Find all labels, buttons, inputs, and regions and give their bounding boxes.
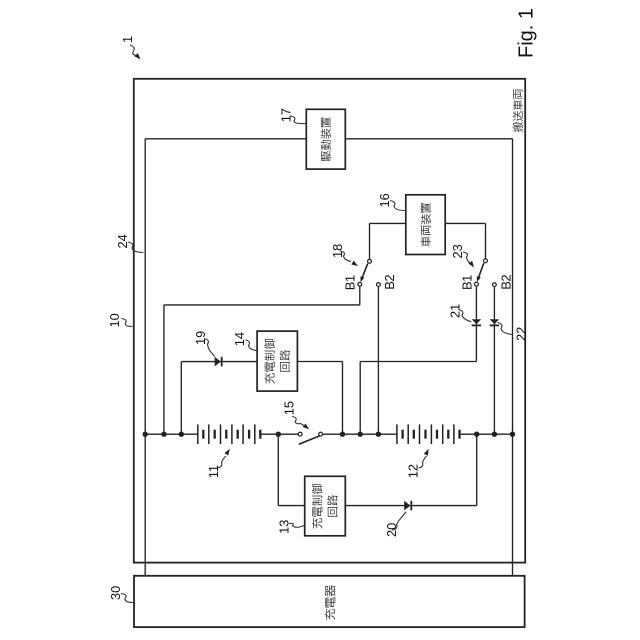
label 車両装置 (vehicle device) <box>421 203 431 247</box>
wire B1(23) down <box>475 287 477 362</box>
svg-text:24: 24 <box>115 234 130 248</box>
svg-text:18: 18 <box>330 244 345 258</box>
battery 11 (cells) <box>197 424 199 444</box>
svg-text:B1: B1 <box>460 275 475 290</box>
outer box (transport vehicle 10) <box>134 79 525 563</box>
switch 18 contact B1 <box>358 282 362 286</box>
junction dot (bus/wire22) <box>510 432 515 437</box>
leader for label 17 <box>290 116 306 124</box>
junction dot (B2-23 wire/bus) <box>492 432 497 437</box>
svg-text:B2: B2 <box>499 275 514 290</box>
leader for label 13 <box>289 523 305 527</box>
junction dot (U14 right riser/bus) <box>340 432 345 437</box>
charge control circuit box U13 <box>305 476 346 536</box>
switch 23 pivot contact <box>484 259 488 263</box>
wire 22 (right bus vertical) <box>512 139 514 576</box>
switch 15 right contact <box>319 432 323 436</box>
svg-text:B1: B1 <box>343 275 358 290</box>
junction dot (B1-18 wire/bus) <box>161 432 166 437</box>
wire from U16 left to switch 18 <box>370 222 406 224</box>
leader arrow for label 23 <box>463 252 470 263</box>
junction dot (diode20 riser/bus) <box>474 432 479 437</box>
wire from U16 right to switch 23 <box>445 222 485 224</box>
label 充電器 (charger) <box>325 585 336 619</box>
leader for label 14 <box>246 340 257 351</box>
wire U13 left to bus <box>278 505 304 507</box>
junction dot (B1-23 riser/bus) <box>358 432 363 437</box>
svg-text:10: 10 <box>107 313 122 327</box>
junction dot (B2-18 wire/bus) <box>376 432 381 437</box>
leader arrow for label 1 <box>130 45 137 56</box>
switch 18 pivot contact <box>368 259 372 263</box>
svg-text:30: 30 <box>108 586 123 600</box>
leader arrow for label 11 <box>218 456 227 468</box>
battery-11 bus left segment <box>145 433 198 435</box>
svg-text:12: 12 <box>406 464 421 478</box>
svg-text:13: 13 <box>276 520 291 534</box>
drive device box U17 <box>306 109 345 169</box>
vehicle device box U16 <box>406 195 445 255</box>
charge control circuit box U14 <box>257 331 297 391</box>
leader for label 30 <box>121 594 133 603</box>
bus switch-15 to battery 12 <box>323 433 397 435</box>
switch 18 contact B2 <box>377 283 381 287</box>
top bus wire (left segment) <box>145 138 306 140</box>
wire B2(23) down to bus <box>493 287 495 434</box>
wire bus to diode 19 <box>180 362 182 435</box>
svg-text:22: 22 <box>514 327 529 341</box>
wire B1(23) elbow to bus <box>360 361 476 363</box>
svg-text:19: 19 <box>193 331 208 345</box>
wire 24 (left bus vertical) <box>144 139 146 576</box>
label 充電制御 (line 1 of U14) <box>264 339 275 384</box>
label 搬送車両 (transport vehicle) <box>513 89 523 132</box>
label 回路 (line 2 of U13) <box>327 495 338 517</box>
bus battery-12 right segment <box>460 433 513 435</box>
battery 12 (cells) <box>396 424 398 444</box>
leader for label 21 <box>459 310 472 322</box>
diode D20 <box>404 501 410 511</box>
svg-text:15: 15 <box>282 401 297 415</box>
leader for label 20 <box>392 518 401 530</box>
svg-text:Fig. 1: Fig. 1 <box>516 8 538 58</box>
bus battery-11 to switch 15 <box>260 433 298 435</box>
junction dot (U13 left riser/bus) <box>276 432 281 437</box>
label 駆動装置 (drive device) <box>321 117 331 161</box>
leader for label 22 <box>498 323 512 335</box>
svg-text:21: 21 <box>448 304 463 318</box>
switch 18 blade <box>361 264 368 281</box>
leader for label 24 <box>128 242 143 253</box>
wire U14 right to bus <box>297 361 342 363</box>
switch 15 left contact <box>298 432 302 436</box>
junction dot (diode19 wire/bus) <box>179 432 184 437</box>
top bus wire (right segment) <box>345 138 512 140</box>
junction dot (wire24/bus) <box>143 432 148 437</box>
diode D21a <box>472 319 481 324</box>
leader arrow for label 12 <box>419 456 427 468</box>
wire B2(18) down to bus <box>377 287 379 434</box>
diode D21b <box>490 319 499 324</box>
diode D19 <box>215 357 221 367</box>
leader for label 16 <box>390 201 405 211</box>
svg-text:23: 23 <box>450 244 465 258</box>
svg-text:16: 16 <box>377 193 392 207</box>
switch 23 contact B1 <box>475 282 479 286</box>
svg-text:B2: B2 <box>382 275 397 290</box>
leader for label 19 <box>204 339 215 357</box>
leader for label 10 <box>122 319 133 327</box>
switch 23 contact B2 <box>493 283 497 287</box>
switch 15 blade <box>299 436 320 445</box>
label 充電制御 (line 1 of U13) <box>312 484 323 529</box>
charger box 30 <box>134 576 525 627</box>
svg-text:14: 14 <box>232 332 247 346</box>
label 回路 (line 2 of U14) <box>280 350 291 372</box>
svg-text:11: 11 <box>206 465 221 478</box>
switch 23 blade <box>478 263 484 280</box>
wire U13 right via diode 20 to bus <box>345 505 476 507</box>
leader arrow for label 18 <box>340 251 351 262</box>
svg-text:17: 17 <box>278 108 293 122</box>
svg-text:1: 1 <box>120 36 135 43</box>
leader arrow for label 15 <box>292 417 305 426</box>
wire B1(18) to battery-11 bus <box>359 287 361 305</box>
